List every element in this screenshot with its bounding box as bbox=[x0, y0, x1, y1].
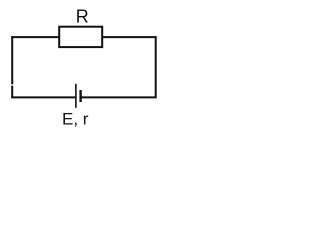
battery cell E short plate (negative) bbox=[79, 90, 81, 102]
wire bottom-left segment (bottom-left corner to battery) bbox=[11, 96, 75, 98]
wire left vertical lower segment (below small break) bbox=[11, 86, 13, 98]
wire left vertical upper segment bbox=[11, 37, 13, 84]
wire right vertical segment bbox=[155, 37, 157, 97]
battery cell E long plate (positive) bbox=[75, 84, 77, 108]
wire bottom-right segment (battery to bottom-right corner) bbox=[82, 96, 157, 98]
resistor R1 body bbox=[59, 27, 102, 47]
wire top-left segment (top-left corner to resistor) bbox=[12, 36, 59, 37]
svg-text:R: R bbox=[76, 6, 89, 26]
svg-text:E, r: E, r bbox=[62, 109, 89, 128]
wire top-right segment (resistor to top-right corner) bbox=[102, 36, 156, 37]
